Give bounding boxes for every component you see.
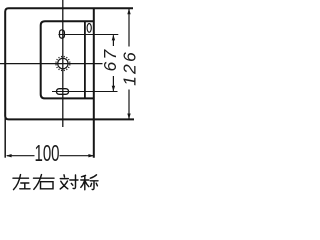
svg-text:100: 100 bbox=[34, 141, 59, 167]
67 dimension arrow down bbox=[112, 86, 115, 92]
svg-text:126: 126 bbox=[120, 50, 140, 86]
67 dimension line upper segment bbox=[112, 35, 114, 46]
outer body outline 100x126 plan view bbox=[5, 8, 134, 119]
knockout circle bbox=[58, 58, 68, 68]
126 dimension arrow up bbox=[127, 9, 130, 15]
100 dimension arrow right bbox=[88, 154, 94, 157]
100 dimension line right segment bbox=[60, 155, 94, 157]
126 dimension line lower segment bbox=[128, 90, 130, 119]
svg-text:67: 67 bbox=[100, 48, 120, 72]
126 dimension line upper segment bbox=[128, 9, 130, 47]
bottom slot center extension line (67 dim) bbox=[52, 91, 118, 93]
inner box step edge bbox=[84, 21, 86, 98]
bottom mounting slot (horizontal obround) bbox=[56, 89, 68, 95]
67 dimension line lower segment bbox=[112, 76, 114, 91]
100 dimension line left segment bbox=[7, 155, 35, 157]
vertical centerline bbox=[62, 0, 64, 127]
kanji 称 bbox=[81, 175, 98, 190]
126 dimension arrow down bbox=[127, 114, 130, 120]
67 dimension arrow up bbox=[112, 35, 115, 41]
knockout serration ticks bbox=[55, 56, 70, 71]
kanji 右 bbox=[34, 175, 55, 190]
horizontal centerline bbox=[0, 63, 103, 65]
top mounting slot (vertical obround) bbox=[60, 30, 65, 38]
kanji 左 bbox=[13, 175, 30, 190]
outer body right edge + extension line bbox=[93, 8, 95, 158]
100 dimension arrow left bbox=[6, 154, 12, 157]
top slot center extension line (67 dim) bbox=[58, 34, 118, 36]
kanji 対 bbox=[60, 175, 78, 189]
outer body left edge extension line (100 dim) bbox=[4, 112, 6, 158]
small oval mark (0) on right flange bbox=[87, 24, 91, 33]
inner raised box outline bbox=[41, 21, 94, 98]
note text 左右対称 (hand drawn strokes) bbox=[13, 175, 98, 190]
